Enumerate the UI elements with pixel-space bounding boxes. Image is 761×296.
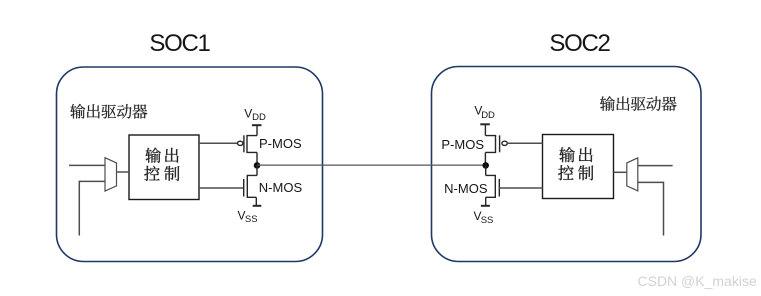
wire A1 to U1 [117, 171, 130, 173]
buffer mux A1 [105, 158, 117, 191]
buffer mux A2 [627, 158, 638, 191]
wire pad to pad interconnect [257, 164, 486, 166]
svg-text:N-MOS: N-MOS [259, 180, 303, 195]
VDD supply tick SOC1 [252, 124, 262, 126]
transistor N-MOS Q4 [486, 165, 500, 206]
U1 text line1 输出 [145, 148, 178, 163]
svg-text:SS: SS [245, 214, 258, 225]
SOC1 chip outline [57, 67, 323, 262]
pad node SOC1 [254, 162, 261, 169]
wire A2 top output [638, 165, 673, 167]
svg-text:DD: DD [481, 110, 495, 121]
wire A2 bottom output [638, 182, 664, 235]
svg-text:SOC1: SOC1 [149, 30, 210, 57]
svg-text:P-MOS: P-MOS [259, 136, 302, 151]
transistor P-MOS Q1 [238, 125, 258, 165]
wire U2 to A2 [614, 171, 627, 173]
wire U2 gate to Q4 (N-MOS) [499, 187, 542, 189]
U2 text line1 输出 [559, 147, 592, 162]
U2 text line2 控制 [558, 165, 593, 180]
output control box U1 [129, 135, 199, 200]
pad node SOC2 [482, 162, 489, 169]
svg-text:SOC2: SOC2 [549, 30, 610, 57]
transistor P-MOS Q3 [485, 124, 507, 165]
U1 text line2 控制 [144, 166, 179, 181]
wire U2 gate to Q3 (P-MOS) [507, 142, 542, 144]
svg-text:P-MOS: P-MOS [441, 137, 484, 152]
svg-text:CSDN @K_makise: CSDN @K_makise [638, 273, 757, 289]
output control box U2 [543, 135, 614, 199]
wire U1 to Q2 gate [199, 187, 244, 189]
SOC2 chip outline [432, 67, 702, 262]
wire top input to A1 [69, 164, 105, 166]
label 输出驱动器 (output driver) SOC2 [600, 96, 677, 111]
wire U1 to Q1 gate [199, 142, 237, 144]
svg-text:SS: SS [481, 215, 494, 226]
wire bottom input to A1 [79, 181, 105, 235]
VSS ground tick SOC2 [481, 205, 490, 207]
svg-text:DD: DD [252, 112, 266, 123]
transistor N-MOS Q2 [244, 165, 257, 206]
svg-text:N-MOS: N-MOS [444, 181, 488, 196]
VDD supply tick SOC2 [480, 123, 490, 125]
VSS ground tick SOC1 [253, 205, 262, 207]
label 输出驱动器 (output driver) SOC1 [70, 104, 147, 119]
